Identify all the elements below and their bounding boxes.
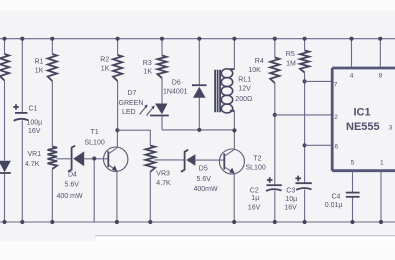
wire VR3 wiper to D5 bbox=[155, 159, 185, 161]
capacitor C2 bbox=[266, 184, 281, 186]
node relay/T2 collector junction bbox=[232, 128, 236, 132]
pin 8 stub bbox=[379, 39, 381, 67]
wire VR1 wiper to D4 bbox=[57, 158, 72, 160]
wire C1 column bbox=[21, 39, 23, 222]
resistor R4 bbox=[270, 58, 279, 84]
svg-text:IC1: IC1 bbox=[354, 107, 371, 119]
svg-text:R5: R5 bbox=[286, 51, 295, 58]
node pin7 junction bbox=[303, 79, 307, 83]
wire base junction down to ground rail bbox=[93, 159, 95, 222]
node pin6 junction bbox=[303, 143, 307, 147]
pin 4 stub bbox=[351, 39, 353, 67]
pin 5 stub bbox=[352, 171, 354, 222]
diode (left, cropped) bbox=[0, 161, 11, 172]
svg-text:100µ: 100µ bbox=[27, 120, 43, 127]
wire D6 column bbox=[198, 39, 200, 130]
wire R2 column bbox=[117, 39, 119, 131]
svg-text:C3: C3 bbox=[286, 187, 295, 194]
wire R1/VR1 column bbox=[51, 39, 53, 222]
zener D5 5.6V bbox=[181, 150, 188, 172]
wire faint cropped line bottom bbox=[95, 235, 395, 237]
svg-text:1M: 1M bbox=[286, 60, 296, 67]
svg-text:NE555: NE555 bbox=[346, 121, 380, 133]
wire top supply rail bbox=[0, 38, 395, 40]
svg-text:1K: 1K bbox=[144, 68, 153, 75]
wire R4/C2 column bbox=[274, 39, 276, 222]
svg-text:1K: 1K bbox=[101, 66, 110, 73]
svg-text:16V: 16V bbox=[284, 204, 297, 211]
node T1 collector / R2 bbox=[115, 128, 119, 132]
capacitor C4 bbox=[346, 192, 360, 194]
svg-text:6: 6 bbox=[335, 144, 339, 151]
svg-text:5.6V: 5.6V bbox=[197, 176, 212, 183]
svg-text:16V: 16V bbox=[28, 128, 41, 135]
wire T1 collector to VR3 top bbox=[117, 130, 150, 145]
resistor R2 bbox=[113, 55, 122, 81]
capacitor C1 bbox=[15, 112, 27, 114]
resistor (left, cropped) bbox=[0, 54, 9, 81]
svg-text:C4: C4 bbox=[332, 193, 341, 200]
zener D4 5.6V bbox=[68, 146, 75, 172]
node pin2 junction bbox=[273, 113, 277, 117]
potentiometer VR1 bbox=[48, 147, 58, 170]
wire R5/C3 column bbox=[304, 39, 306, 222]
svg-text:10K: 10K bbox=[248, 67, 261, 74]
IC U1 NE555 box bbox=[332, 68, 395, 171]
resistor R3 bbox=[157, 56, 166, 79]
svg-text:R2: R2 bbox=[100, 56, 109, 63]
svg-text:0.01µ: 0.01µ bbox=[325, 202, 343, 209]
transistor T1 SL100 bbox=[104, 147, 128, 171]
transistor T2 SL100 bbox=[219, 149, 244, 174]
svg-text:4.7K: 4.7K bbox=[156, 180, 171, 187]
svg-text:RL1: RL1 bbox=[238, 76, 251, 83]
svg-text:C1: C1 bbox=[29, 106, 38, 113]
svg-text:GREEN: GREEN bbox=[119, 100, 144, 107]
svg-text:5: 5 bbox=[351, 160, 355, 167]
wire LED cathode to relay/T2 line bbox=[162, 129, 234, 131]
svg-text:10µ: 10µ bbox=[285, 196, 297, 203]
svg-text:1N4001: 1N4001 bbox=[163, 89, 188, 96]
wire to pin 7 bbox=[305, 80, 332, 82]
svg-text:12V: 12V bbox=[238, 86, 251, 93]
wire R3/LED column bbox=[161, 39, 163, 130]
svg-text:T2: T2 bbox=[253, 155, 261, 162]
svg-text:8: 8 bbox=[379, 73, 383, 80]
svg-text:4.7K: 4.7K bbox=[25, 161, 40, 168]
node base junction bbox=[92, 156, 96, 160]
resistor R5 bbox=[300, 51, 309, 73]
relay RL1 12V 200ohm bbox=[233, 39, 235, 149]
resistor R1 bbox=[48, 54, 57, 81]
diode D6 1N4001 bbox=[192, 84, 207, 86]
svg-text:SL100: SL100 bbox=[246, 164, 266, 171]
node top rail junctions bbox=[2, 37, 6, 41]
potentiometer VR3 bbox=[146, 146, 156, 172]
node D6 on collector wire bbox=[197, 128, 201, 132]
wire left rail segments bbox=[4, 39, 6, 222]
svg-text:3: 3 bbox=[389, 124, 393, 131]
svg-text:VR1: VR1 bbox=[28, 151, 42, 158]
svg-text:D7: D7 bbox=[128, 90, 137, 97]
capacitor C3 bbox=[296, 182, 312, 184]
svg-text:1K: 1K bbox=[35, 68, 44, 75]
svg-text:LED: LED bbox=[122, 109, 136, 116]
svg-text:200Ω: 200Ω bbox=[235, 96, 252, 103]
svg-text:1µ: 1µ bbox=[251, 195, 259, 202]
pin 1 stub bbox=[380, 171, 382, 222]
svg-text:16V: 16V bbox=[248, 204, 261, 211]
wire bottom ground rail bbox=[0, 221, 395, 223]
wire to pin 2 bbox=[275, 114, 332, 116]
wire D4 to T1 base bbox=[84, 158, 108, 160]
svg-text:D6: D6 bbox=[172, 80, 181, 87]
svg-text:400mW: 400mW bbox=[194, 186, 219, 193]
svg-text:R1: R1 bbox=[35, 59, 44, 66]
svg-text:R3: R3 bbox=[143, 60, 152, 67]
LED D7 green bbox=[155, 104, 168, 115]
wire to pin 6 bbox=[305, 144, 332, 146]
node bottom rail junctions bbox=[2, 220, 6, 224]
svg-text:7: 7 bbox=[334, 81, 338, 88]
svg-text:5.6V: 5.6V bbox=[65, 182, 80, 189]
svg-text:C2: C2 bbox=[250, 187, 259, 194]
svg-text:4: 4 bbox=[350, 73, 354, 80]
svg-text:VR3: VR3 bbox=[156, 170, 170, 177]
svg-text:R4: R4 bbox=[255, 58, 264, 65]
svg-text:SL100: SL100 bbox=[85, 139, 105, 146]
svg-text:2: 2 bbox=[334, 114, 338, 121]
svg-text:D5: D5 bbox=[199, 165, 208, 172]
svg-text:1: 1 bbox=[380, 160, 384, 167]
svg-text:T1: T1 bbox=[91, 129, 99, 136]
wire D5 to T2 base bbox=[195, 159, 224, 161]
svg-text:D4: D4 bbox=[68, 172, 77, 179]
svg-text:400 mW: 400 mW bbox=[57, 193, 83, 200]
